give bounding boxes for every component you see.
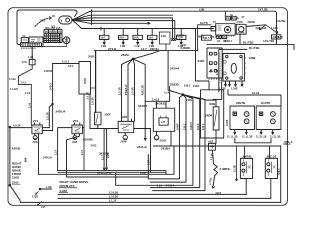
- svg-text:303B: 303B: [88, 54, 94, 58]
- ignition key dot: [227, 29, 229, 31]
- headlamp H2 lamp 1 arrow: [271, 112, 275, 116]
- connector X1 pin circle: [66, 18, 70, 22]
- wire 3611 to bus: [170, 131, 172, 146]
- switch SW2 ticks: [267, 160, 269, 176]
- switch SW1 box: [240, 158, 252, 178]
- box Q lead 1: [225, 81, 227, 86]
- headlamp H2 square: [259, 112, 263, 116]
- switch 2454 blade: [214, 110, 217, 126]
- arrow 212B: [36, 192, 39, 195]
- tick fan line 5: [100, 27, 102, 30]
- headlamp H1 lead 2: [246, 130, 248, 135]
- svg-text:213B: 213B: [140, 171, 146, 175]
- svg-text:24/26: 24/26: [60, 189, 68, 193]
- ignition key circle: [224, 27, 230, 33]
- ground G3 tail: [123, 138, 127, 140]
- wire pair 24DL4 a: [49, 104, 52, 128]
- ground G4 circle: [154, 136, 158, 140]
- box P pair 3 triangle: [210, 70, 213, 72]
- relay K228 internals: [120, 124, 131, 130]
- svg-text:273: 273: [73, 119, 78, 123]
- wire J corner2: [150, 95, 186, 182]
- svg-text:1.0B: 1.0B: [46, 185, 52, 189]
- switch SW2 bar: [270, 162, 272, 173]
- svg-text:212B: 212B: [32, 195, 38, 199]
- svg-text:4.9.3A: 4.9.3A: [13, 123, 21, 127]
- svg-text:1.10.3B: 1.10.3B: [109, 190, 118, 194]
- svg-text:0.3MFE: 0.3MFE: [220, 167, 231, 171]
- fuse box grid cells: [44, 34, 60, 43]
- svg-text:44/D.9: 44/D.9: [189, 122, 193, 130]
- box P pair 2 square: [210, 62, 213, 65]
- wire 2E3B a: [103, 129, 105, 171]
- svg-text:DL/T3B: DL/T3B: [249, 46, 260, 50]
- wire 201D line: [95, 25, 212, 51]
- box R outline: [201, 90, 224, 138]
- relay K box small: [21, 38, 28, 43]
- ground G1 tail: [34, 138, 37, 140]
- wire F20 down diagonal: [18, 65, 32, 125]
- component box B1: [29, 37, 43, 47]
- wire strip bottom link: [43, 46, 66, 48]
- connector stub ticks: [24, 158, 26, 163]
- box P outline: [207, 48, 222, 78]
- fuse F3 drop: [137, 29, 139, 36]
- wire DL hook down: [293, 44, 295, 49]
- svg-text:2M7/B: 2M7/B: [243, 154, 253, 158]
- relay R2 top ticks: [75, 123, 80, 125]
- ignition sub box X1: [217, 35, 222, 38]
- svg-text:2EZ.34: 2EZ.34: [267, 154, 277, 158]
- wire bus bottom 2: [58, 197, 271, 199]
- relay K228 bottom pin: [124, 133, 126, 136]
- wire fan line 4b: [72, 20, 150, 24]
- switch SW1 cross: [248, 166, 251, 169]
- wire headlamp link: [235, 139, 271, 143]
- ignition sub box X2: [222, 35, 227, 38]
- relay R2 bottom pin: [74, 134, 76, 136]
- relay K228 box: [118, 121, 134, 132]
- wire fan line 5 down: [72, 20, 213, 29]
- svg-text:343B: 343B: [160, 138, 166, 142]
- svg-text:348+4: 348+4: [283, 142, 291, 146]
- svg-text:2283D: 2283D: [170, 83, 180, 87]
- svg-text:2638: 2638: [121, 140, 127, 144]
- svg-text:2.17: 2.17: [80, 149, 84, 155]
- box Q center oval: [231, 63, 236, 73]
- grid header marks: [45, 31, 61, 32]
- wire bus bottom 3: [21, 201, 281, 203]
- fuse F1 lead arrow: [103, 40, 105, 45]
- box 24D4 small: [272, 35, 282, 39]
- wire thick pair a: [58, 171, 166, 175]
- ground G2 tail: [73, 138, 76, 140]
- svg-text:249/F: 249/F: [176, 123, 180, 130]
- svg-text:10A.: 10A.: [100, 36, 106, 40]
- box P bottom ticks: [209, 78, 219, 80]
- svg-text:1.13E: 1.13E: [219, 86, 226, 90]
- ignition sub X2 diag: [222, 35, 227, 38]
- svg-text:3433.: 3433.: [91, 144, 98, 148]
- headlamp H2 lamp 2 arrow: [271, 119, 275, 123]
- box Q corner circle 3: [226, 77, 228, 79]
- wire branch to ignition top boxes: [224, 11, 226, 16]
- svg-text:COL/T3B: COL/T3B: [263, 39, 274, 43]
- svg-text:217: 217: [41, 205, 46, 209]
- svg-text:DL/TN: DL/TN: [200, 21, 208, 25]
- fuse F1 drop: [103, 29, 105, 36]
- ignition sub X1 diag: [217, 35, 222, 38]
- svg-text:24E7B: 24E7B: [236, 101, 246, 105]
- wire S1 bottom: [97, 125, 99, 129]
- svg-text:24/F03: 24/F03: [44, 69, 53, 73]
- relay R1 box: [32, 125, 42, 134]
- wire A2B to coil: [213, 150, 214, 164]
- svg-text:8350/B: 8350/B: [83, 138, 94, 142]
- wire top-left loop: [17, 10, 77, 33]
- pair end mark a: [172, 39, 174, 41]
- svg-text:G08: G08: [33, 140, 38, 144]
- svg-text:21B5: 21B5: [12, 175, 20, 179]
- svg-text:24DL2: 24DL2: [224, 39, 232, 43]
- svg-text:15A: 15A: [22, 60, 27, 64]
- svg-text:G08: G08: [72, 140, 77, 144]
- connector strip comb: [21, 43, 42, 47]
- fuse F6 box: [177, 35, 186, 39]
- switch SW1 contact a: [242, 163, 245, 166]
- box Q lead 3: [235, 81, 237, 86]
- wire relay2 left down: [58, 128, 72, 171]
- wire fan v2: [128, 59, 133, 119]
- headlamp H1 lamp 1 arrow: [245, 112, 249, 116]
- headlamp H2 lead 1: [260, 130, 262, 135]
- box P pair 1 square: [210, 52, 213, 55]
- wire 2431B vertical: [150, 129, 152, 173]
- svg-text:245/1.4: 245/1.4: [166, 184, 175, 188]
- svg-text:24D4: 24D4: [205, 113, 213, 117]
- svg-text:2Y2.B: 2Y2.B: [108, 47, 117, 51]
- svg-text:1.12A: 1.12A: [271, 26, 278, 30]
- headlamp H2 lead 2: [272, 130, 274, 135]
- svg-text:1.2B: 1.2B: [101, 44, 107, 48]
- ignition circle B: [239, 27, 244, 32]
- box AT inner: [159, 118, 168, 125]
- wire J to switch 2454: [183, 95, 216, 107]
- svg-text:X: X: [61, 19, 63, 23]
- svg-text:1.3E: 1.3E: [215, 69, 219, 75]
- svg-text:1.5.1R: 1.5.1R: [91, 97, 95, 105]
- fuse F20 internals: [31, 59, 33, 64]
- headlamp H1 square dot: [234, 113, 235, 114]
- switch 2454 box: [213, 107, 219, 130]
- switch S1 blade: [96, 114, 98, 123]
- wire thick pair b: [58, 171, 166, 173]
- svg-text:11.3L.3B: 11.3L.3B: [270, 135, 281, 139]
- svg-text:2431.B: 2431.B: [137, 145, 148, 149]
- wire 5153 horizontal: [53, 63, 79, 65]
- svg-text:30A: 30A: [40, 19, 45, 23]
- wire coil tail arrow: [212, 176, 214, 188]
- node fan point: [72, 19, 73, 20]
- headlamp H2 box: [256, 106, 281, 130]
- relay K internals: [23, 39, 28, 41]
- wire feed diagonal 4way: [133, 51, 160, 59]
- relay R2 box: [72, 125, 83, 134]
- box Q corner circle 4: [240, 77, 242, 79]
- node J dot: [182, 94, 184, 96]
- headlamp H1 square: [233, 112, 237, 116]
- ground G1 circle: [33, 136, 37, 140]
- box Q lead 4: [241, 81, 243, 86]
- svg-text:2W2.13B: 2W2.13B: [256, 26, 267, 30]
- wire bus146 right down: [280, 146, 282, 202]
- box P pair 3 circle: [214, 69, 217, 72]
- svg-text:10A.: 10A.: [134, 36, 140, 40]
- wire Y branch right arrow: [266, 25, 278, 33]
- wire fan line 3: [72, 18, 172, 40]
- ground G2 circle: [73, 136, 77, 140]
- wire relay1 right link A: [42, 127, 49, 129]
- wire box P right down: [213, 78, 222, 99]
- svg-text:H1.1B: H1.1B: [252, 91, 259, 95]
- switch SW2 cross: [273, 166, 276, 169]
- svg-text:X1: X1: [217, 39, 221, 43]
- svg-text:4.1A: 4.1A: [164, 91, 170, 95]
- fuse F20 box: [29, 59, 35, 64]
- box Q side ticks: [222, 58, 247, 74]
- wire 1-0B stub: [40, 188, 52, 190]
- fuse box grid outer: [44, 30, 62, 43]
- svg-text:1.17: 1.17: [100, 154, 104, 160]
- wire loop left lower: [17, 33, 21, 45]
- svg-text:10A.: 10A.: [119, 36, 125, 40]
- wire bus bottom 1: [58, 193, 246, 195]
- svg-text:11.1L.3B: 11.1L.3B: [242, 135, 253, 139]
- svg-text:243B4: 243B4: [161, 146, 170, 150]
- svg-text:24D41: 24D41: [150, 47, 159, 51]
- svg-text:B/S 7.5A: B/S 7.5A: [210, 35, 221, 39]
- svg-text:24DL/4: 24DL/4: [56, 110, 66, 114]
- fuse F3 box: [133, 35, 142, 39]
- svg-text:24B: 24B: [161, 34, 166, 38]
- svg-text:H13TE: H13TE: [261, 101, 270, 105]
- node pair split: [52, 103, 53, 104]
- svg-text:N/S2.1R: N/S2.1R: [141, 85, 145, 95]
- wire strip to fuse F20: [31, 47, 33, 60]
- arrow 2E3B a: [103, 168, 105, 171]
- relay R1 bottom pin: [34, 134, 36, 136]
- svg-text:228: 228: [122, 115, 127, 119]
- tick fan line 2: [91, 14, 93, 17]
- svg-text:11.1L.1B: 11.1L.1B: [227, 135, 238, 139]
- wire J corner5: [153, 95, 206, 191]
- svg-text:241.9: 241.9: [196, 123, 200, 130]
- clock symbol circle: [63, 37, 70, 44]
- svg-text:2W2B: 2W2B: [248, 20, 255, 24]
- headlamp H1 box: [230, 106, 255, 130]
- wire Y branch left arrow: [259, 25, 265, 30]
- wire ignition Y stem: [246, 25, 266, 27]
- wire fan v4: [133, 59, 145, 101]
- relay R1 internals: [33, 127, 41, 132]
- wire ignition B down: [239, 34, 241, 44]
- connector X1 oval: [59, 16, 72, 24]
- svg-text:3433.7: 3433.7: [138, 104, 148, 108]
- node dot left 127: [9, 126, 11, 128]
- box AT pins: [161, 116, 166, 118]
- svg-text:2105: 2105: [12, 180, 19, 184]
- wire 242-44 vertical: [167, 51, 169, 87]
- switch SW1 bar: [245, 162, 247, 173]
- wire SW2 top feed: [269, 146, 271, 158]
- wire MBS vertical: [196, 29, 210, 90]
- svg-text:10A.: 10A.: [148, 36, 154, 40]
- switch S1 box: [95, 112, 101, 125]
- svg-text:24D4: 24D4: [186, 98, 193, 102]
- svg-text:30A 15A 10A: 30A 15A 10A: [45, 26, 61, 30]
- svg-text:1.2B: 1.2B: [134, 44, 140, 48]
- arrow 2E3B b: [106, 168, 108, 171]
- wire drop to 3611 b: [165, 101, 167, 108]
- svg-text:1.5.1R: 1.5.1R: [131, 87, 135, 95]
- svg-text:1.19A: 1.19A: [9, 77, 16, 81]
- ignition top box 1: [225, 16, 230, 20]
- wire J corner4: [151, 95, 200, 188]
- switch SW2 contact a: [267, 163, 270, 166]
- wire long vertical 84: [83, 94, 85, 171]
- node 4way junction: [132, 58, 134, 60]
- node dot A55B: [9, 147, 11, 149]
- border frame: [8, 8, 288, 206]
- box T tall: [79, 62, 91, 95]
- ignition top box 2: [231, 16, 236, 20]
- wire SW1 top feed: [244, 146, 246, 158]
- svg-text:FROM 21S: FROM 21S: [60, 184, 75, 188]
- wire pair 24DL4 b: [52, 64, 54, 131]
- svg-text:348.4: 348.4: [277, 168, 281, 175]
- svg-text:1.1Y: 1.1Y: [54, 149, 58, 155]
- ignition box B: [236, 24, 246, 34]
- underline left legend: [12, 183, 21, 185]
- wire 2283D to J: [168, 86, 183, 94]
- tick fan line 3: [91, 16, 93, 19]
- fuse F4 drop: [151, 29, 153, 36]
- wire h128 left: [90, 128, 118, 130]
- ground G4 tail: [155, 138, 159, 140]
- box A2B plus mark: [211, 145, 214, 148]
- switch SW1 contact b: [242, 169, 245, 172]
- svg-text:11.3B: 11.3B: [233, 165, 237, 172]
- wire J corner3: [116, 95, 193, 186]
- wire v4 continue arrow: [144, 101, 146, 140]
- fuse F2 lead arrow: [122, 40, 124, 45]
- arrow 217: [38, 202, 42, 206]
- relay R1 top ticks: [35, 123, 40, 125]
- svg-text:3433.6: 3433.6: [99, 151, 109, 155]
- svg-text:24D.9: 24D.9: [49, 83, 53, 90]
- svg-text:1.5.1R: 1.5.1R: [86, 92, 90, 100]
- wire ground bus left: [9, 127, 11, 185]
- svg-text:3038: 3038: [83, 78, 87, 84]
- underline block: [59, 188, 77, 193]
- svg-text:2E3B+2E3B: 2E3B+2E3B: [97, 171, 112, 175]
- coil zigzag: [214, 164, 218, 176]
- wire SW1 bottom: [245, 179, 247, 195]
- wire 2E3B b: [106, 129, 108, 171]
- svg-text:1.41.8: 1.41.8: [152, 97, 160, 101]
- relay R2 internals: [73, 127, 81, 132]
- pair end mark b: [174, 39, 176, 41]
- svg-text:130.4: 130.4: [201, 123, 205, 130]
- box 24B pin: [165, 44, 167, 51]
- svg-text:274: 274: [33, 119, 38, 123]
- svg-text:14.5: 14.5: [21, 80, 27, 84]
- ignition main box ticks: [218, 35, 234, 37]
- wire DL line short: [219, 48, 247, 50]
- box Q dashed linkage: [219, 54, 221, 83]
- wire clock stub: [65, 44, 67, 47]
- tick fan line 1: [90, 10, 92, 13]
- switch SW2 box: [265, 158, 277, 178]
- svg-text:24D4: 24D4: [193, 84, 200, 88]
- svg-text:242/44: 242/44: [170, 66, 180, 70]
- svg-text:DL/T3B: DL/T3B: [243, 40, 254, 44]
- wire relay2 right link: [82, 127, 84, 129]
- headlamp H2 square dot: [260, 113, 261, 114]
- clock symbol cross: [64, 37, 68, 44]
- svg-text:24D4: 24D4: [273, 35, 280, 39]
- svg-text:4.1/2: 4.1/2: [25, 91, 31, 95]
- headlamp H1 lamp 2: [244, 119, 249, 124]
- connector strip dots: [22, 47, 36, 49]
- svg-text:303B: 303B: [209, 102, 215, 106]
- headlamp H2 lamp 2: [271, 119, 276, 124]
- dashed throttle arc: [35, 18, 52, 27]
- svg-text:1.2B: 1.2B: [120, 44, 126, 48]
- fuse F4 box: [148, 35, 157, 39]
- svg-text:24.0S: 24.0S: [232, 16, 239, 20]
- svg-text:11.3L.1B: 11.3L.1B: [256, 135, 267, 139]
- wire 2454 to A2B: [215, 130, 217, 143]
- svg-text:1.2B: 1.2B: [178, 44, 184, 48]
- svg-text:1.03: 1.03: [28, 55, 34, 59]
- svg-text:24D.5: 24D.5: [203, 36, 210, 40]
- wire vA main vertical: [95, 51, 97, 113]
- fuse F1 box: [100, 35, 109, 39]
- fuse F2 drop: [122, 29, 124, 36]
- svg-text:161X5B: 161X5B: [276, 19, 286, 23]
- wire 3611 bottom pin: [156, 131, 158, 135]
- svg-text:A2B: A2B: [208, 140, 213, 144]
- box Q corner circle 2: [240, 55, 242, 57]
- svg-text:A55/B: A55/B: [12, 146, 21, 150]
- ignition inner detail: [218, 26, 222, 30]
- box Q lead 2: [229, 81, 231, 86]
- ignition left attach box: [211, 27, 216, 31]
- headlamp H2 lamp 1: [271, 112, 276, 117]
- svg-text:1.36E: 1.36E: [231, 86, 238, 90]
- box Q inner line: [242, 58, 244, 80]
- svg-text:136E: 136E: [249, 56, 256, 60]
- svg-text:1.03: 1.03: [27, 102, 31, 108]
- wire boxT right down: [89, 94, 91, 129]
- svg-text:1.5.1R: 1.5.1R: [46, 112, 50, 120]
- svg-text:24D1: 24D1: [198, 59, 206, 63]
- switch SW1 ticks: [242, 160, 244, 176]
- box Q outline: [223, 54, 245, 82]
- svg-text:11.7: 11.7: [141, 47, 147, 51]
- node 1-0B dot: [39, 188, 41, 190]
